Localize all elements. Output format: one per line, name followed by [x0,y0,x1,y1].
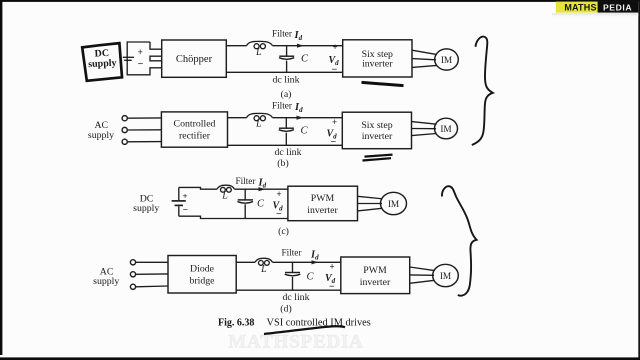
svg-text:L: L [255,47,262,58]
svg-text:rectifier: rectifier [179,131,211,142]
svg-text:dc link: dc link [275,147,302,158]
svg-text:MATHS: MATHS [564,3,596,13]
svg-text:bridge: bridge [189,276,215,287]
svg-text:(a): (a) [281,89,292,100]
svg-text:Filter: Filter [272,28,292,38]
svg-text:Filter: Filter [282,248,302,258]
svg-text:Filter: Filter [272,100,292,110]
svg-text:C: C [301,54,309,65]
svg-text:+: + [330,261,335,271]
svg-text:IM: IM [440,125,451,135]
svg-text:IM: IM [388,200,399,210]
svg-text:PEDIA: PEDIA [603,2,632,12]
svg-text:L: L [221,191,228,202]
svg-text:Filter: Filter [236,176,256,186]
svg-text:+: + [277,189,282,199]
svg-text:Diode: Diode [190,264,215,275]
svg-text:Six step: Six step [361,120,392,131]
svg-text:Controlled: Controlled [174,119,216,130]
svg-text:Fig. 6.38: Fig. 6.38 [218,317,254,328]
svg-text:inverter: inverter [362,131,393,142]
svg-text:supply: supply [88,58,117,70]
svg-text:−: − [276,209,282,220]
svg-text:dc link: dc link [283,292,310,303]
svg-text:−: − [332,64,338,75]
svg-text:PWM: PWM [311,193,335,204]
svg-text:(d): (d) [280,303,291,314]
svg-text:supply: supply [88,130,114,141]
svg-text:supply: supply [133,203,159,214]
svg-text:inverter: inverter [360,277,391,288]
svg-text:dc link: dc link [273,74,300,85]
svg-text:+: + [183,191,188,201]
svg-text:+: + [332,117,337,127]
svg-text:L: L [255,119,262,130]
svg-text:supply: supply [93,276,119,287]
svg-text:+: + [138,47,143,57]
svg-text:C: C [307,271,315,282]
svg-text:(c): (c) [278,226,289,237]
svg-text:MATHSPEDIA: MATHSPEDIA [228,332,363,353]
svg-text:Chöpper: Chöpper [176,54,213,65]
svg-text:(b): (b) [277,158,288,169]
svg-text:L: L [260,264,267,275]
svg-text:inverter: inverter [307,205,338,216]
svg-text:IM: IM [440,272,451,282]
svg-text:IM: IM [441,56,452,66]
svg-text:+: + [333,42,338,52]
svg-text:−: − [331,137,337,148]
svg-text:−: − [183,205,188,216]
svg-text:C: C [301,126,309,137]
svg-text:C: C [257,199,265,210]
svg-text:−: − [138,59,144,70]
svg-text:PWM: PWM [363,265,387,276]
svg-text:−: − [329,282,335,293]
svg-text:inverter: inverter [362,59,393,70]
